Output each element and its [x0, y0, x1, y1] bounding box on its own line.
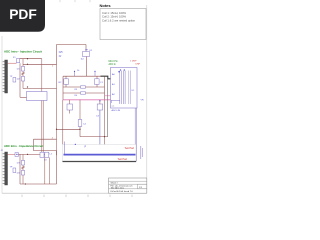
- ladder rung 2: [63, 92, 105, 94]
- junction dots circuit2: [16, 154, 17, 155]
- wire: circuit2 lower horizontal: [18, 153, 48, 155]
- inline component F2: [8, 153, 15, 155]
- resistor R1 zigzag: [21, 72, 24, 75]
- long vertical wire b: [62, 100, 64, 155]
- wire: circuit1 left rail: [19, 63, 21, 97]
- wire: riser from circuit1 up: [56, 45, 58, 65]
- wire right vertical to sheet: [104, 100, 106, 162]
- wire: top run down: [85, 45, 87, 57]
- short maroon into box: [105, 95, 111, 97]
- svg-text:PDF: PDF: [9, 7, 37, 22]
- coil L1 box: [27, 92, 48, 101]
- diode D1: [21, 66, 24, 71]
- IC box U1: [111, 68, 138, 109]
- verticals below U1: [134, 108, 136, 155]
- capacitor C4: [78, 120, 82, 127]
- pin stub from J1: [8, 62, 17, 64]
- wire: circuit1 top horizontal: [20, 58, 42, 60]
- svg-text:Sheet: /: Sheet: /: [111, 182, 119, 185]
- wire circuit2 link: [34, 138, 57, 140]
- resistor R5 zigzag: [21, 166, 24, 169]
- component column circuit2: [22, 154, 24, 184]
- sheet ruler ticks top: [60, 0, 90, 2]
- wire: circuit1 second horizontal: [23, 63, 57, 65]
- svg-text:Test Pad: Test Pad: [118, 158, 128, 161]
- purple stub into box: [64, 142, 66, 155]
- connector J2: [3, 152, 8, 185]
- long vertical wire a: [56, 64, 58, 155]
- svg-text:VR: VR: [141, 100, 144, 102]
- diode D3: [21, 160, 24, 165]
- wire bottom horizontal to right: [80, 136, 108, 138]
- junction dot D: [56, 129, 57, 130]
- component K1: [83, 52, 90, 57]
- wire: K1 down to rail: [86, 57, 88, 77]
- wire: circuit2 bottom horizontal: [20, 183, 57, 185]
- wire: top run horizontal: [57, 44, 87, 46]
- wire: circuit1 bottom stub to coil: [20, 96, 27, 98]
- thick blue line: [64, 154, 136, 156]
- resistor R2: [64, 79, 69, 85]
- junction dot C: [27, 86, 28, 87]
- svg-text:Coil 2: 15mH, 100%: Coil 2: 15mH, 100%: [102, 15, 127, 19]
- ladder rung 1: [63, 86, 105, 88]
- wire: circuit2 left rail: [19, 154, 21, 184]
- ladder right rail: [104, 76, 106, 100]
- U1 internal element pair 3: [128, 71, 130, 105]
- PDF badge: [0, 0, 45, 32]
- wire: circuit2 upper horizontal: [34, 150, 57, 152]
- junction dot A: [27, 58, 28, 59]
- title block: [109, 178, 147, 193]
- svg-text:Title: ADC intro: Title: ADC intro: [111, 187, 125, 190]
- wire C4 up to pink: [79, 100, 81, 120]
- capacitor C1: [95, 79, 100, 85]
- coil L2 components: [40, 152, 44, 157]
- svg-text:Test Pad: Test Pad: [125, 147, 135, 150]
- svg-text:KiCad E.D.A. kicad 7.0: KiCad E.D.A. kicad 7.0: [111, 190, 134, 193]
- diode D4: [21, 170, 24, 175]
- coil primary drop: [41, 59, 43, 92]
- sheet frame bottom border: [2, 192, 147, 194]
- svg-text:ADC In: ADC In: [109, 63, 117, 66]
- wire: circuit2 right rail: [56, 151, 58, 184]
- svg-text:MCU Pin: MCU Pin: [109, 61, 119, 63]
- sheet ruler ticks bottom: [22, 195, 132, 197]
- ladder left rail: [62, 76, 64, 100]
- U1 internal element pair 1: [119, 71, 121, 105]
- component column vertical wire: [22, 59, 24, 89]
- svg-text:Coil 1: 15mH, 100%: Coil 1: 15mH, 100%: [102, 11, 127, 15]
- wire from C4 down: [79, 127, 81, 137]
- notes box: [100, 9, 146, 40]
- svg-text:DNP: DNP: [136, 63, 141, 65]
- rung1 inline resistor: [81, 86, 86, 88]
- black bus segment: [101, 76, 111, 79]
- wire: column bottom horizontal: [23, 88, 57, 90]
- vertical dark bus down to sheet: [107, 79, 109, 137]
- capacitor C3 below ladder: [97, 104, 103, 110]
- capacitor C2 below ladder: [67, 104, 73, 110]
- test pads group outline: [63, 145, 137, 162]
- U1 inner bottom component: [111, 100, 120, 103]
- coil secondary drops: [44, 157, 46, 184]
- U1 internal element pair 2: [123, 71, 125, 105]
- testpoint TP2: [13, 168, 16, 173]
- vertical pair to circuit2: [41, 101, 43, 153]
- U1 pin top dots: [120, 69, 121, 70]
- pin tick above K1: [85, 49, 87, 51]
- sheet frame right border: [146, 5, 148, 193]
- svg-text:ADC Intro - Impedance Circuit: ADC Intro - Impedance Circuit: [4, 144, 43, 148]
- svg-text:Notes: Notes: [100, 3, 112, 8]
- inline component FB1: [17, 59, 20, 63]
- link wire drop: [33, 139, 35, 150]
- svg-text:ADC0 IN: ADC0 IN: [112, 109, 121, 112]
- rail pin 2: [94, 72, 96, 76]
- rail pin 1: [74, 72, 76, 76]
- wire: main rail: [63, 75, 101, 77]
- svg-text:1 DNP: 1 DNP: [130, 60, 137, 62]
- wire to C4: [57, 128, 81, 130]
- rung2 inline resistor: [81, 92, 86, 94]
- vertical purple down to sheet: [99, 110, 101, 155]
- junction dot B: [27, 64, 28, 65]
- svg-text:adc: adc: [111, 105, 114, 107]
- pink net line: [63, 99, 111, 101]
- junction blue dot: [118, 71, 119, 72]
- svg-text:1V: 1V: [59, 56, 62, 58]
- svg-text:1V5: 1V5: [59, 52, 64, 54]
- blue dot on box top: [75, 144, 76, 145]
- connector J1: [3, 60, 8, 93]
- testpoint element right of sheet box: [140, 146, 142, 159]
- sheet frame left border: [1, 36, 3, 193]
- svg-text:ADC Intro - Injection Circuit: ADC Intro - Injection Circuit: [4, 50, 42, 54]
- testpoint TP1: [13, 78, 16, 83]
- svg-text:Coil 1 & 2 are nested option: Coil 1 & 2 are nested option: [102, 18, 136, 22]
- diode D2: [21, 76, 24, 81]
- sheet box bottom thick edge: [63, 161, 137, 163]
